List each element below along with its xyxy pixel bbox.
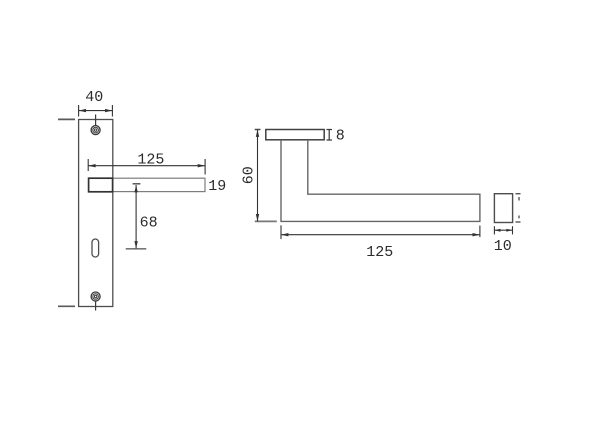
dimension 125 (side) line xyxy=(281,234,480,236)
svg-text:68: 68 xyxy=(140,214,158,231)
dimension 125 (front) line xyxy=(88,165,205,167)
left break line top xyxy=(58,118,75,120)
dashed corner bottom right of end view xyxy=(518,216,520,219)
dimension 60 bottom tick xyxy=(255,220,277,222)
dimension 40 extension lines xyxy=(78,105,80,117)
dimension 10 extension lines xyxy=(493,226,495,234)
dimension 68 top tick xyxy=(133,183,141,185)
lever arm (front view, thin part) xyxy=(113,178,205,191)
keyhole xyxy=(92,239,99,257)
bottom screw centerline xyxy=(95,301,97,310)
svg-text:10: 10 xyxy=(494,238,512,255)
handle base on plate (front view, thick part) xyxy=(89,178,113,192)
dimension 10 line xyxy=(494,229,512,231)
top screw centerline xyxy=(95,115,97,126)
svg-text:125: 125 xyxy=(137,151,164,168)
dimension 8 ticks and line xyxy=(327,129,333,131)
dashed corner top right of end view xyxy=(516,193,521,195)
dimension 125 (front) extension lines xyxy=(87,159,89,171)
rose flange (side view) xyxy=(266,130,324,140)
handle outline (side view) xyxy=(281,140,480,222)
handle cross-section (end view) xyxy=(494,194,512,223)
left break line bottom xyxy=(58,305,75,307)
dimension 40 line xyxy=(79,110,113,112)
bottom screw xyxy=(91,292,100,301)
dimension 125 (side) extension lines xyxy=(280,225,282,239)
svg-text:19: 19 xyxy=(208,178,226,195)
top screw xyxy=(91,126,100,135)
svg-text:8: 8 xyxy=(336,127,345,144)
svg-text:40: 40 xyxy=(85,89,103,106)
dimension 68 line xyxy=(135,185,137,249)
dimension 60 line xyxy=(257,130,259,222)
dimension 68 bottom tick xyxy=(126,248,147,250)
backplate (front view) xyxy=(79,120,113,307)
svg-text:125: 125 xyxy=(366,244,393,261)
dimension 60 top tick xyxy=(255,129,261,131)
svg-text:60: 60 xyxy=(240,166,257,184)
